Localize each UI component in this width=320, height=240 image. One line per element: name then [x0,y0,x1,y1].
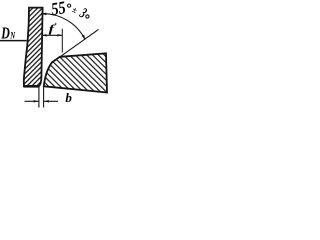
f extension line [61,29,63,53]
f label top dot [55,23,57,25]
degree mark after 55 [68,4,71,7]
b extension line left [38,86,40,107]
D leader underline [0,40,27,42]
bevel extension line [60,29,99,56]
plate (left vertical part, hatched) [24,8,43,87]
arc arrow left [41,13,46,16]
b dimension line left [25,100,39,102]
b arrow right [44,100,49,102]
b dimension line right [44,100,58,102]
plate bottom edge (thick) [24,85,40,88]
angle dimension arc [41,14,85,40]
block (right part, hatched, beveled left edge) [44,53,107,92]
f arrow right [57,34,62,36]
f dimension line [42,34,63,36]
svg-text:N: N [9,31,16,41]
arc arrow right [82,35,85,40]
b arrow left [34,100,39,102]
svg-text:55: 55 [50,0,67,20]
degree mark after 3 [86,15,89,18]
svg-text:b: b [65,90,72,105]
b extension line right [43,86,45,107]
f arrow left [41,34,46,36]
